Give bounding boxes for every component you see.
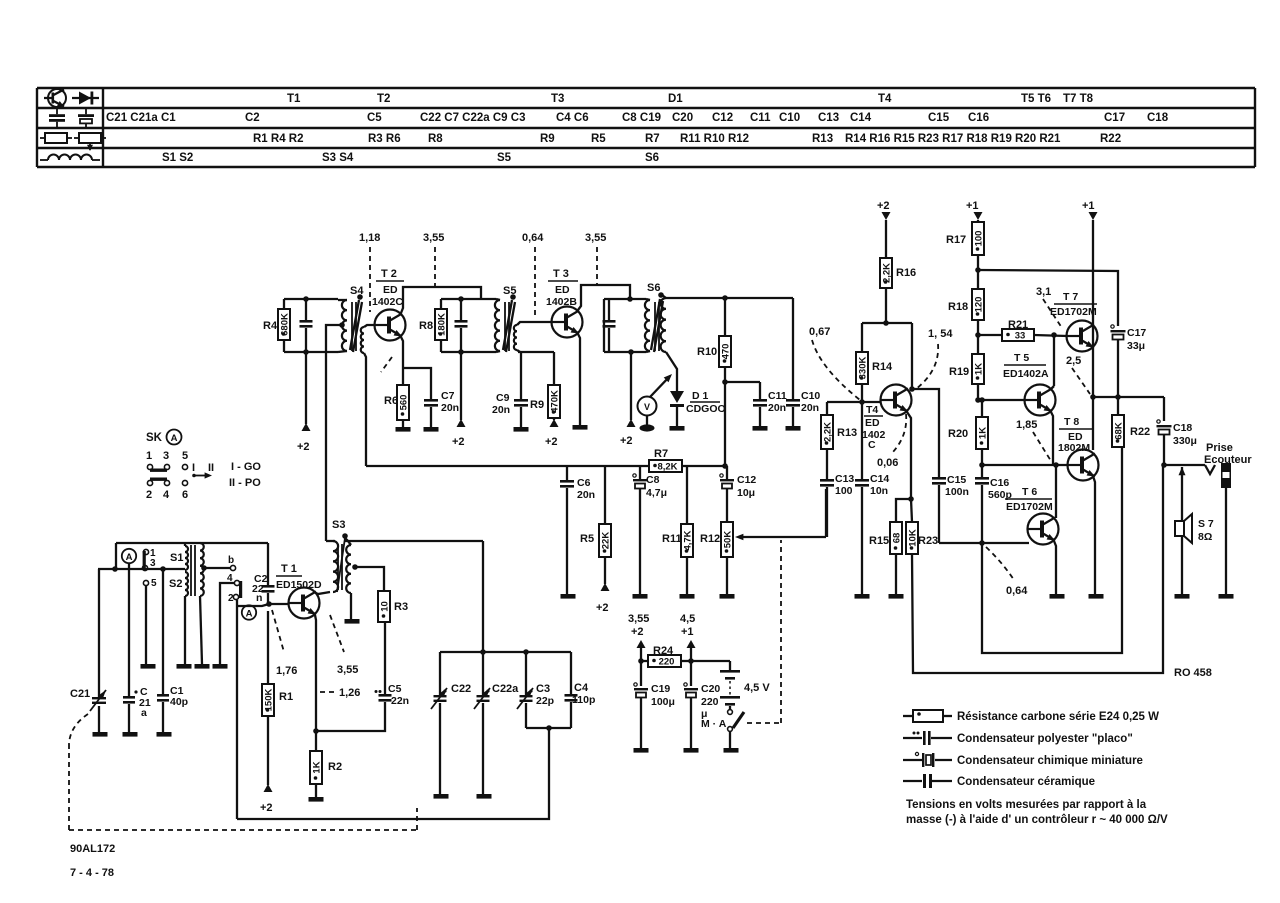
ground C6 — [561, 594, 576, 599]
voltmeter V — [638, 374, 673, 425]
svg-text:Condensateur céramique: Condensateur céramique — [957, 776, 1095, 788]
svg-text:3: 3 — [163, 450, 169, 462]
IF transformer S5 secondary — [514, 322, 551, 352]
svg-text:1K: 1K — [311, 761, 322, 773]
measure 3,55 dashed at T1 — [330, 615, 358, 676]
svg-text:3,55: 3,55 — [423, 232, 444, 244]
wire tuning rail — [440, 541, 571, 655]
wire T8 emitter to ground — [1093, 476, 1095, 594]
svg-text:C10: C10 — [779, 112, 800, 124]
svg-text:R23: R23 — [918, 535, 938, 547]
resistor R19 — [949, 354, 984, 403]
svg-text:T4: T4 — [866, 404, 878, 416]
antenna secondary coil — [200, 543, 204, 596]
capacitor C13 — [820, 473, 854, 537]
ground R12 — [720, 594, 735, 599]
svg-text:+2: +2 — [452, 436, 465, 448]
contact pins 4 2 — [227, 573, 242, 604]
switch detail SK label — [146, 430, 182, 445]
svg-text:R4: R4 — [263, 320, 278, 332]
ground T8 — [1089, 594, 1104, 599]
transistor T2 — [375, 310, 406, 341]
wire S1 top stub — [184, 543, 186, 546]
capacitor C17 — [1111, 325, 1147, 397]
svg-text:T4: T4 — [878, 93, 892, 105]
node T1 emitter — [313, 728, 319, 734]
capacitor C15 — [932, 474, 982, 543]
capacitor C7 — [424, 390, 459, 427]
svg-text:a: a — [141, 707, 147, 719]
wire tank2 rails — [441, 296, 496, 355]
svg-text:V: V — [644, 402, 650, 412]
ground R11 — [680, 594, 695, 599]
svg-text:C15: C15 — [928, 112, 950, 124]
resistor R8 — [419, 299, 447, 352]
node S3 tap — [352, 564, 358, 570]
svg-text:4,5 V: 4,5 V — [744, 682, 770, 694]
legend ceramique symbol — [903, 774, 952, 788]
variable capacitor C22a — [474, 652, 519, 794]
wire feedback R22 — [982, 447, 1122, 653]
svg-text:C16: C16 — [990, 477, 1009, 489]
resistor R21 — [978, 319, 1067, 342]
svg-text:C14: C14 — [870, 473, 889, 485]
svg-text:T7 T8: T7 T8 — [1063, 93, 1094, 105]
legend resistor symbol — [903, 710, 952, 722]
wire base T1 — [261, 604, 263, 606]
svg-text:330μ: 330μ — [1173, 435, 1197, 447]
supply arrow C20 — [687, 640, 696, 686]
svg-text:+2: +2 — [260, 802, 273, 814]
capacitor C12 — [720, 466, 757, 522]
svg-text:5: 5 — [182, 450, 188, 462]
svg-text:560: 560 — [398, 395, 409, 411]
resistor R22 — [1112, 397, 1150, 447]
wire R3 to S3 tap — [355, 567, 384, 591]
switch S6 label and wiper — [647, 282, 664, 352]
ground R6 — [396, 427, 411, 432]
svg-text:1,18: 1,18 — [359, 232, 380, 244]
svg-text:8,2K: 8,2K — [657, 462, 677, 473]
svg-text:C18: C18 — [1173, 422, 1192, 434]
svg-text:470: 470 — [720, 344, 731, 360]
svg-text:T3: T3 — [551, 93, 564, 105]
svg-text:masse (-) à l'aide d' un contr: masse (-) à l'aide d' un contrôleur r ~ … — [906, 814, 1168, 826]
svg-text:C8: C8 — [646, 474, 660, 486]
svg-text:S 7: S 7 — [1198, 518, 1214, 530]
svg-text:+1: +1 — [966, 200, 979, 212]
svg-text:4,5: 4,5 — [680, 613, 695, 625]
capacitor tank3 — [603, 299, 616, 352]
capacitor C20 — [684, 683, 721, 748]
measure 0,64 dashed — [522, 232, 544, 318]
wire wiper to C13 — [825, 489, 827, 537]
svg-text:R7: R7 — [654, 448, 668, 460]
wire T6 collector — [1055, 465, 1057, 518]
ground switch — [724, 748, 739, 753]
capacitor tank1 — [300, 296, 313, 355]
wire tank1 rails — [284, 299, 338, 352]
svg-text:2,2K: 2,2K — [822, 422, 833, 442]
switch SK contacts — [147, 464, 187, 485]
capacitor C10 — [786, 298, 820, 426]
oscillator coil S3 secondary — [346, 545, 351, 593]
ground pin5 — [141, 664, 156, 669]
svg-text:2,2K: 2,2K — [881, 263, 892, 283]
svg-text:68: 68 — [891, 533, 902, 544]
svg-text:C20: C20 — [701, 683, 720, 695]
svg-text:220: 220 — [659, 657, 675, 668]
svg-text:C22 C7 C22a C9 C3: C22 C7 C22a C9 C3 — [420, 112, 525, 124]
dashed link volume to switch — [747, 540, 781, 723]
svg-text:R7: R7 — [645, 133, 660, 145]
svg-text:C4 C6: C4 C6 — [556, 112, 589, 124]
IF transformer S4 secondary — [361, 325, 375, 353]
wire tank3 rails — [604, 296, 646, 355]
wire T5 collector — [1051, 386, 1054, 389]
measure 2,5 dashed — [1066, 355, 1090, 394]
svg-text:Condensateur polyester "placo": Condensateur polyester "placo" — [957, 733, 1133, 745]
ground voltmeter — [640, 424, 655, 431]
svg-text:ED: ED — [555, 284, 570, 296]
svg-text:2: 2 — [146, 489, 152, 501]
S5 core — [505, 302, 509, 351]
wire T1 collector — [314, 592, 330, 594]
resistor R24 — [638, 645, 694, 668]
svg-text:0,06: 0,06 — [877, 457, 898, 469]
supply +2 R9 — [545, 419, 559, 448]
svg-text:ED1402A: ED1402A — [1003, 368, 1049, 380]
ground S3 — [345, 619, 360, 624]
ground secondary — [195, 664, 210, 669]
svg-text:S1 S2: S1 S2 — [162, 152, 193, 164]
transistor T2 labels — [372, 268, 404, 308]
svg-text:ED: ED — [865, 417, 880, 429]
table symbol potentiometer — [74, 133, 106, 151]
svg-text:2,5: 2,5 — [1066, 355, 1081, 367]
speaker S7 — [1175, 467, 1214, 594]
ground speaker — [1175, 594, 1190, 599]
variable capacitor C22 — [431, 652, 471, 794]
capacitor C5 — [375, 622, 410, 707]
table coil row — [162, 152, 659, 164]
svg-text:1K: 1K — [973, 363, 984, 375]
ground jack — [1219, 594, 1234, 599]
svg-text:A: A — [171, 433, 178, 444]
svg-text:C4: C4 — [574, 682, 589, 694]
transistor T1 labels — [276, 563, 322, 591]
resistor R18 — [948, 289, 984, 354]
svg-text:ED: ED — [383, 284, 398, 296]
svg-text:T 8: T 8 — [1064, 416, 1079, 428]
measure 3,1 dashed — [1036, 286, 1062, 328]
wire node to T1 — [269, 603, 289, 605]
ground C20 — [684, 748, 699, 753]
wire driver chain — [979, 397, 985, 417]
svg-text:22p: 22p — [536, 695, 554, 707]
svg-text:1,76: 1,76 — [276, 665, 297, 677]
svg-text:Tensions en volts mesurées par: Tensions en volts mesurées par rapport à… — [906, 799, 1147, 811]
svg-text:RO 458: RO 458 — [1174, 667, 1212, 679]
svg-text:+2: +2 — [620, 435, 633, 447]
svg-text:C17: C17 — [1104, 112, 1125, 124]
svg-text:R9: R9 — [530, 399, 544, 411]
capacitor C4 — [565, 652, 596, 728]
svg-text:C9: C9 — [496, 392, 510, 404]
antenna ferrite core — [191, 545, 195, 596]
svg-text:R3: R3 — [394, 601, 408, 613]
node AGC — [722, 463, 728, 469]
wire T4 emitter — [907, 412, 911, 499]
supply +2 tank1 — [297, 352, 311, 453]
svg-text:R11: R11 — [662, 533, 682, 545]
capacitor tank2 — [455, 299, 468, 352]
wire S3 secondary top — [345, 538, 351, 545]
svg-text:R12: R12 — [700, 533, 720, 545]
svg-text:C11: C11 — [750, 112, 771, 124]
resistor R10 — [697, 295, 731, 385]
wire T3 emitter to ground — [578, 334, 580, 425]
svg-text:T 1: T 1 — [281, 563, 297, 575]
capacitor C2 — [252, 543, 275, 604]
svg-text:ED1702M: ED1702M — [1050, 306, 1097, 318]
supply +2 R5 — [596, 583, 610, 614]
capacitor C11 — [725, 382, 787, 426]
switch SK pin numbers top — [146, 450, 188, 462]
ground R2 — [309, 797, 324, 802]
wire T4 collector to C15 — [912, 389, 939, 477]
IF transformer S5 primary — [495, 299, 500, 352]
svg-text:A: A — [246, 609, 253, 620]
svg-text:C2: C2 — [245, 112, 260, 124]
svg-text:S3: S3 — [332, 519, 345, 531]
resistor R6 — [384, 385, 409, 427]
svg-text:50K: 50K — [722, 531, 733, 549]
svg-text:C: C — [868, 439, 876, 451]
svg-text:10n: 10n — [870, 485, 888, 497]
supply +1 R17 — [966, 200, 983, 222]
svg-text:C17: C17 — [1127, 327, 1146, 339]
svg-text:0,64: 0,64 — [1006, 585, 1028, 597]
potentiometer R12 — [700, 522, 733, 594]
measure 3,55 dashed T2 — [423, 232, 444, 286]
svg-text:R2: R2 — [328, 761, 342, 773]
svg-text:1402B: 1402B — [546, 296, 577, 308]
svg-text:C7: C7 — [441, 390, 455, 402]
IF transformer S6 primary — [645, 299, 650, 352]
wire R16 node to T4 collector — [862, 320, 915, 392]
wire S3 primary top — [326, 540, 335, 542]
resistor R23 — [906, 499, 938, 554]
svg-text:+2: +2 — [596, 602, 609, 614]
legend polyester symbol — [903, 731, 952, 745]
legend note text — [906, 799, 1168, 826]
battery 4,5V — [691, 661, 770, 709]
ground C21a — [123, 732, 138, 737]
supply labels 3,55 +2 — [628, 613, 649, 638]
wire T5 emitter — [1051, 412, 1053, 465]
svg-text:II: II — [208, 462, 214, 474]
svg-text:4,7μ: 4,7μ — [646, 487, 667, 499]
wire secondary bottom to ground — [200, 596, 202, 664]
measure -1,26 dashed — [320, 687, 360, 699]
table symbol resistor — [40, 133, 72, 143]
wire S3 out to tuning — [345, 540, 483, 542]
svg-text:150K: 150K — [263, 689, 274, 712]
wire mixer base line down to S3 — [326, 325, 342, 541]
ground R15 — [889, 594, 904, 599]
wire S4 secondary bottom to AGC — [364, 353, 366, 466]
measure 0,64 dashed T6 — [986, 547, 1028, 597]
svg-text:S6: S6 — [647, 282, 660, 294]
switch contact pin 5 — [143, 578, 157, 664]
resistor R16 — [880, 258, 916, 323]
transistor T3 — [552, 307, 583, 338]
svg-text:100μ: 100μ — [651, 696, 675, 708]
resistor R7 — [649, 448, 682, 473]
svg-text:C15: C15 — [947, 474, 966, 486]
svg-text:T5 T6: T5 T6 — [1021, 93, 1051, 105]
wire S6 top out — [666, 297, 793, 299]
svg-text:R5: R5 — [580, 533, 594, 545]
ground pin4 — [213, 664, 228, 669]
wire S4 tap to mixer — [339, 322, 345, 328]
transistor T4 — [881, 385, 912, 416]
ground C22a — [477, 794, 492, 799]
svg-text:C20: C20 — [672, 112, 693, 124]
svg-text:R22: R22 — [1100, 133, 1121, 145]
node output rail — [1090, 394, 1096, 400]
supply arrow C19 — [637, 640, 646, 686]
svg-text:680K: 680K — [279, 313, 290, 336]
oscillator coil S3 primary — [333, 541, 338, 592]
svg-text:R15: R15 — [869, 535, 889, 547]
measure 1,54 dashed — [916, 328, 953, 389]
svg-text:R8: R8 — [428, 133, 443, 145]
svg-text:C22: C22 — [451, 683, 471, 695]
svg-text:Résistance carbone série E24 0: Résistance carbone série E24 0,25 W — [957, 711, 1159, 723]
capacitor C19 — [634, 683, 675, 748]
svg-text:I - GO: I - GO — [231, 461, 261, 473]
variable capacitor C3 — [517, 652, 554, 728]
wire T6 base — [982, 542, 1029, 544]
svg-text:4: 4 — [163, 489, 170, 501]
svg-text:0,64: 0,64 — [522, 232, 544, 244]
svg-text:33: 33 — [1015, 331, 1026, 342]
svg-text:T 3: T 3 — [553, 268, 569, 280]
R12 wiper arrow — [735, 534, 826, 541]
svg-text:C22a: C22a — [492, 683, 519, 695]
svg-text:20n: 20n — [492, 404, 510, 416]
svg-text:C19: C19 — [651, 683, 670, 695]
svg-text:1: 1 — [146, 450, 152, 462]
resistor R5 — [580, 466, 611, 584]
resistor R2 — [310, 731, 342, 797]
svg-text:R5: R5 — [591, 133, 606, 145]
svg-text:R8: R8 — [419, 320, 433, 332]
svg-text:T 2: T 2 — [381, 268, 397, 280]
svg-text:C6: C6 — [577, 477, 591, 489]
wire T3 collector — [578, 285, 630, 310]
wire oscillator link bottom — [237, 728, 549, 819]
svg-text:S6: S6 — [645, 152, 659, 164]
svg-text:3,55: 3,55 — [628, 613, 649, 625]
resistor R11 — [662, 466, 693, 594]
ground C8 — [633, 594, 648, 599]
svg-text:C12: C12 — [737, 474, 756, 486]
svg-text:T 7: T 7 — [1063, 291, 1078, 303]
wire T2 emitter — [401, 337, 403, 385]
ground D1 — [670, 426, 685, 431]
oscillator transformer S3 label — [332, 519, 348, 539]
svg-text:20n: 20n — [441, 402, 459, 414]
svg-text:T 5: T 5 — [1014, 352, 1029, 364]
supply +2 tank3 — [620, 352, 636, 447]
ground C1 — [157, 732, 172, 737]
svg-text:4,7K: 4,7K — [682, 530, 693, 550]
wire emitter to C5 — [316, 702, 385, 731]
capacitor C9 — [492, 352, 528, 427]
svg-text:C18: C18 — [1147, 112, 1169, 124]
svg-text:3,55: 3,55 — [337, 664, 358, 676]
transistor T7 — [1067, 321, 1098, 352]
wire R23 to output node — [912, 465, 1163, 673]
svg-text:D1: D1 — [668, 93, 683, 105]
table header row transistor names — [287, 93, 1094, 105]
table capacitor row — [106, 112, 1169, 124]
measure 0,67 dashed — [809, 326, 860, 400]
transistor T6 — [1028, 514, 1059, 545]
resistor R13 — [821, 402, 857, 479]
wire T7 base node to T5 collector — [1053, 335, 1055, 386]
svg-text:R11 R10 R12: R11 R10 R12 — [680, 133, 749, 145]
resistor R14 — [856, 323, 893, 402]
resistor R9 — [530, 352, 560, 420]
S3 wiper — [337, 538, 345, 592]
table symbol capacitor polarized — [78, 109, 94, 127]
ground C22 — [434, 794, 449, 799]
svg-text:100: 100 — [835, 485, 853, 497]
svg-text:180K: 180K — [436, 313, 447, 336]
svg-text:22n: 22n — [391, 695, 409, 707]
svg-text:R3 R6: R3 R6 — [368, 133, 401, 145]
wire T1 emitter — [315, 615, 316, 731]
measuring point A right — [242, 605, 256, 619]
mechanical link dashed C21 to gang — [69, 714, 417, 830]
svg-text:S5: S5 — [497, 152, 512, 164]
capacitor C6 — [560, 466, 595, 594]
svg-text:+1: +1 — [681, 626, 694, 638]
wire C3 C4 bottom rail — [526, 725, 571, 731]
switch SK pin numbers bottom — [146, 489, 188, 501]
ground S2 — [177, 664, 192, 669]
svg-text:100: 100 — [973, 231, 984, 247]
svg-text:C8 C19: C8 C19 — [622, 112, 661, 124]
svg-text:CDGOO: CDGOO — [686, 403, 726, 415]
svg-text:10: 10 — [379, 601, 390, 612]
svg-text:T2: T2 — [377, 93, 390, 105]
table symbol transistor — [44, 89, 66, 107]
transistor T8 — [1068, 450, 1099, 481]
svg-text:20n: 20n — [801, 402, 819, 414]
svg-text:+2: +2 — [631, 626, 644, 638]
IF transformer S6 secondary — [661, 295, 666, 352]
svg-text:R18: R18 — [948, 301, 968, 313]
svg-text:22K: 22K — [600, 532, 611, 550]
table symbol coil — [40, 155, 100, 161]
transistor T3 labels — [546, 268, 578, 308]
svg-text:0,67: 0,67 — [809, 326, 830, 338]
